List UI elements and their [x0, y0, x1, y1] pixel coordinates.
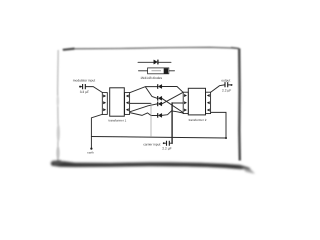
svg-text:transformer 1: transformer 1: [109, 119, 127, 123]
svg-text:2.2 µF: 2.2 µF: [162, 147, 171, 151]
svg-text:earth: earth: [87, 151, 94, 154]
svg-text:2.2 µF: 2.2 µF: [222, 88, 231, 92]
svg-text:carrier input: carrier input: [143, 142, 160, 146]
svg-text:transformer 2: transformer 2: [189, 118, 207, 122]
svg-text:modulator input: modulator input: [73, 78, 95, 82]
svg-text:1N4148 diodes: 1N4148 diodes: [140, 76, 162, 80]
svg-text:3.3 µF: 3.3 µF: [80, 90, 89, 94]
svg-text:output: output: [221, 78, 230, 82]
